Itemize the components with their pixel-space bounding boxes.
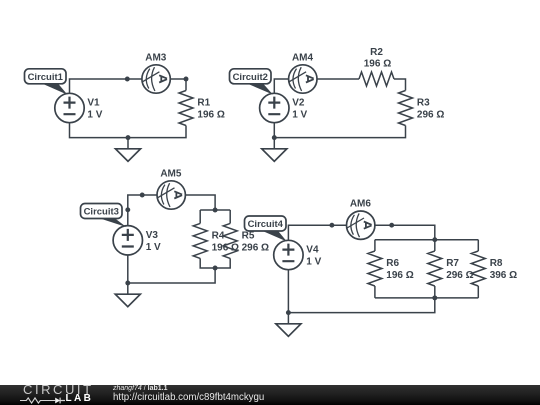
svg-text:R5: R5 xyxy=(242,231,255,242)
wire xyxy=(128,255,215,283)
footer meta text xyxy=(113,385,168,393)
wire xyxy=(200,209,230,211)
svg-text:V1: V1 xyxy=(87,98,100,109)
wire xyxy=(394,79,406,91)
wire xyxy=(288,225,346,240)
callout Circuit2 xyxy=(230,69,273,95)
wire xyxy=(317,78,359,80)
voltage source V1 xyxy=(55,93,84,122)
svg-text:296 Ω: 296 Ω xyxy=(417,110,444,121)
svg-text:AM6: AM6 xyxy=(350,199,372,210)
resistor R8 xyxy=(471,251,485,286)
node n3c xyxy=(213,208,218,213)
svg-text:V4: V4 xyxy=(306,245,319,256)
node gnd1 xyxy=(126,135,131,140)
wire xyxy=(375,225,435,240)
svg-text:Circuit4: Circuit4 xyxy=(248,219,284,230)
resistor R4 xyxy=(193,223,207,258)
ground xyxy=(262,138,287,162)
logo resistor zigzag xyxy=(20,398,55,403)
svg-text:AM3: AM3 xyxy=(145,52,167,63)
svg-text:296 Ω: 296 Ω xyxy=(446,270,473,281)
node A1 xyxy=(125,77,130,82)
svg-text:296 Ω: 296 Ω xyxy=(242,243,269,254)
CircuitLab logo: resistor+diode glyph xyxy=(20,397,67,404)
svg-text:R7: R7 xyxy=(446,258,459,269)
wire xyxy=(434,286,436,298)
node n4c xyxy=(432,237,437,242)
ground xyxy=(115,283,140,307)
wire xyxy=(200,258,230,268)
wire xyxy=(477,286,479,298)
voltage source V2 xyxy=(260,93,289,122)
svg-text:1 V: 1 V xyxy=(292,110,307,121)
svg-text:AM4: AM4 xyxy=(292,52,314,63)
callout Circuit3 xyxy=(81,204,127,228)
wire xyxy=(374,240,376,251)
ground xyxy=(276,313,301,337)
wire xyxy=(374,286,376,298)
resistor R7 xyxy=(428,251,442,286)
wire xyxy=(199,210,201,223)
wire xyxy=(375,297,478,299)
wire xyxy=(70,122,187,137)
wire xyxy=(186,195,216,210)
ammeter AM5 xyxy=(157,181,185,209)
svg-text:Circuit1: Circuit1 xyxy=(28,72,64,83)
ammeter AM6 xyxy=(347,211,375,239)
wire xyxy=(434,240,436,251)
svg-text:V2: V2 xyxy=(292,98,305,109)
voltage source V4 xyxy=(274,240,303,269)
svg-text:R8: R8 xyxy=(490,258,503,269)
wire xyxy=(477,240,479,251)
node gnd3 xyxy=(125,281,130,286)
node n4a xyxy=(329,223,334,228)
logo diode xyxy=(55,397,60,403)
resistor R1 xyxy=(179,91,193,126)
node B1 xyxy=(184,77,189,82)
svg-text:Circuit2: Circuit2 xyxy=(233,72,268,83)
node n3a xyxy=(125,207,130,212)
wire xyxy=(288,270,434,313)
svg-text:R6: R6 xyxy=(386,258,399,269)
resistor R5 xyxy=(223,223,237,258)
ground xyxy=(116,138,141,162)
callout Circuit4 xyxy=(245,216,287,242)
svg-text:1 V: 1 V xyxy=(87,110,102,121)
svg-text:196 Ω: 196 Ω xyxy=(386,270,413,281)
node n3d xyxy=(213,266,218,271)
svg-text:V3: V3 xyxy=(146,230,159,241)
svg-text:R3: R3 xyxy=(417,98,430,109)
node n4b xyxy=(389,223,394,228)
wire xyxy=(170,79,186,91)
svg-text:AM5: AM5 xyxy=(160,168,182,179)
node gnd4 xyxy=(286,310,291,315)
resistor R3 xyxy=(399,91,413,126)
svg-text:Circuit3: Circuit3 xyxy=(84,207,119,218)
node n4d xyxy=(432,295,437,300)
footer bar xyxy=(0,385,540,405)
callout Circuit1 xyxy=(25,69,68,95)
resistor R2 xyxy=(359,72,394,86)
voltage source V3 xyxy=(113,226,142,255)
svg-text:196 Ω: 196 Ω xyxy=(197,110,224,121)
wire xyxy=(375,239,478,241)
wire xyxy=(70,79,142,94)
node n3b xyxy=(140,193,145,198)
svg-text:R1: R1 xyxy=(197,98,210,109)
CircuitLab logo: CIRCUIT xyxy=(23,383,94,396)
resistor R6 xyxy=(368,251,382,286)
wire xyxy=(274,122,405,137)
svg-text:1 V: 1 V xyxy=(306,257,321,268)
ammeter AM3 xyxy=(142,65,170,93)
svg-text:196 Ω: 196 Ω xyxy=(364,59,391,70)
wire xyxy=(229,210,231,223)
svg-text:396 Ω: 396 Ω xyxy=(490,270,517,281)
node gnd2 xyxy=(272,135,277,140)
wire xyxy=(128,195,157,226)
ammeter AM4 xyxy=(289,65,317,93)
svg-text:R2: R2 xyxy=(370,47,383,58)
svg-text:1 V: 1 V xyxy=(146,242,161,253)
wire xyxy=(274,79,288,94)
